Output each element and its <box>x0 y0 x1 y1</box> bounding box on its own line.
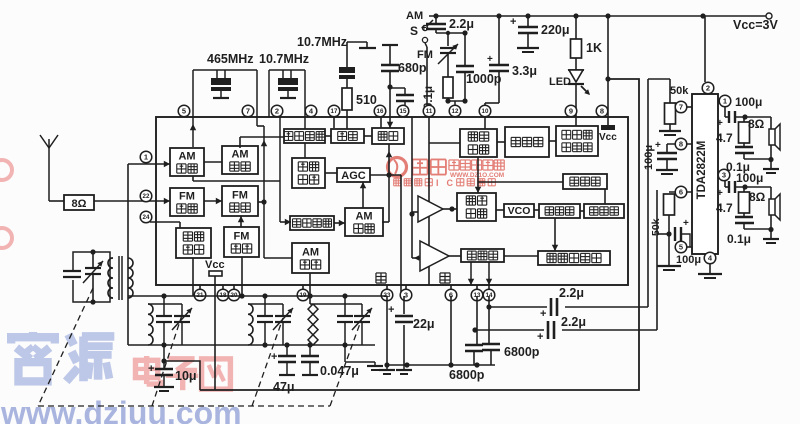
svg-text:8: 8 <box>600 107 604 116</box>
svg-text:16: 16 <box>377 108 384 115</box>
svg-text:+: + <box>540 308 546 320</box>
svg-text:15: 15 <box>400 108 407 115</box>
svg-text:VCO: VCO <box>508 205 531 217</box>
svg-text:AGC: AGC <box>341 170 366 182</box>
svg-text:0.1μ: 0.1μ <box>727 232 751 246</box>
svg-text:4.7: 4.7 <box>716 201 733 215</box>
svg-text:5: 5 <box>182 107 186 116</box>
svg-text:+: + <box>388 304 394 316</box>
svg-text:100μ: 100μ <box>676 254 701 266</box>
svg-text:22: 22 <box>143 193 150 200</box>
svg-text:24: 24 <box>143 214 150 221</box>
svg-text:100μ: 100μ <box>736 171 763 185</box>
svg-text:7: 7 <box>246 107 250 116</box>
svg-text:12: 12 <box>452 108 459 115</box>
svg-text:C: C <box>447 178 454 188</box>
svg-text:1000p: 1000p <box>466 72 502 86</box>
svg-text:10.7MHz: 10.7MHz <box>259 52 309 66</box>
svg-text:FM: FM <box>234 230 250 242</box>
svg-text:6: 6 <box>679 188 683 197</box>
svg-text:2.2μ: 2.2μ <box>559 286 584 300</box>
svg-text:FM: FM <box>232 189 248 201</box>
svg-text:2: 2 <box>275 107 279 116</box>
svg-text:10.7MHz: 10.7MHz <box>297 35 347 49</box>
svg-text:AM: AM <box>178 150 195 162</box>
svg-text:+: + <box>717 118 723 129</box>
svg-text:www.dziuu.com: www.dziuu.com <box>0 395 242 424</box>
svg-text:8Ω: 8Ω <box>748 117 765 131</box>
svg-text:220μ: 220μ <box>541 23 570 37</box>
svg-text:TDA2822M: TDA2822M <box>696 141 708 200</box>
svg-text:+: + <box>510 16 516 28</box>
svg-text:LED: LED <box>549 76 571 88</box>
svg-text:8Ω: 8Ω <box>72 198 87 210</box>
svg-text:3: 3 <box>722 171 726 180</box>
svg-text:AM: AM <box>302 246 319 258</box>
svg-text:22μ: 22μ <box>413 317 435 331</box>
svg-text:0.047μ: 0.047μ <box>320 364 359 378</box>
svg-text:8: 8 <box>679 140 683 149</box>
svg-text:11: 11 <box>426 108 433 115</box>
svg-text:FM: FM <box>179 190 195 202</box>
svg-text:10: 10 <box>482 108 489 115</box>
svg-text:50k: 50k <box>670 85 689 97</box>
svg-text:1: 1 <box>144 153 148 162</box>
svg-text:+: + <box>655 140 661 151</box>
svg-text:7: 7 <box>679 103 683 112</box>
svg-text:2.2μ: 2.2μ <box>449 17 474 31</box>
svg-text:17: 17 <box>331 108 338 115</box>
svg-text:2: 2 <box>706 84 710 93</box>
svg-text:+: + <box>717 188 723 199</box>
svg-text:+: + <box>271 351 277 363</box>
svg-text:10μ: 10μ <box>175 369 197 383</box>
svg-text:3.3μ: 3.3μ <box>512 64 537 78</box>
svg-text:S: S <box>410 24 418 38</box>
svg-text:FM: FM <box>417 49 433 61</box>
svg-text:WWW.DZ1O.COM: WWW.DZ1O.COM <box>450 172 504 179</box>
svg-text:+: + <box>487 54 493 65</box>
svg-text:AM: AM <box>406 10 423 22</box>
svg-text:Vcc: Vcc <box>599 132 617 143</box>
svg-text:+: + <box>148 363 154 375</box>
svg-text:100μ: 100μ <box>735 95 762 109</box>
svg-text:Vcc=3V: Vcc=3V <box>733 18 778 32</box>
svg-text:6800p: 6800p <box>504 345 540 359</box>
svg-text:1: 1 <box>723 97 727 106</box>
svg-text:I: I <box>436 178 439 188</box>
svg-text:47μ: 47μ <box>273 380 295 394</box>
svg-text:8Ω: 8Ω <box>749 190 766 204</box>
svg-text:AM: AM <box>231 148 248 160</box>
svg-text:100μ: 100μ <box>643 145 655 170</box>
svg-text:2.2μ: 2.2μ <box>561 315 586 329</box>
svg-text:680p: 680p <box>398 61 427 75</box>
svg-text:4.7: 4.7 <box>716 131 733 145</box>
svg-text:1K: 1K <box>586 41 602 55</box>
svg-text:AM: AM <box>355 210 372 222</box>
svg-text:510: 510 <box>356 93 377 107</box>
svg-text:Vcc: Vcc <box>205 259 225 271</box>
svg-text:465MHz: 465MHz <box>207 52 254 66</box>
svg-text:9: 9 <box>569 107 573 116</box>
svg-text:+: + <box>537 331 543 343</box>
svg-text:+: + <box>683 218 689 229</box>
svg-text:5: 5 <box>679 243 683 252</box>
svg-text:6800p: 6800p <box>449 368 485 382</box>
